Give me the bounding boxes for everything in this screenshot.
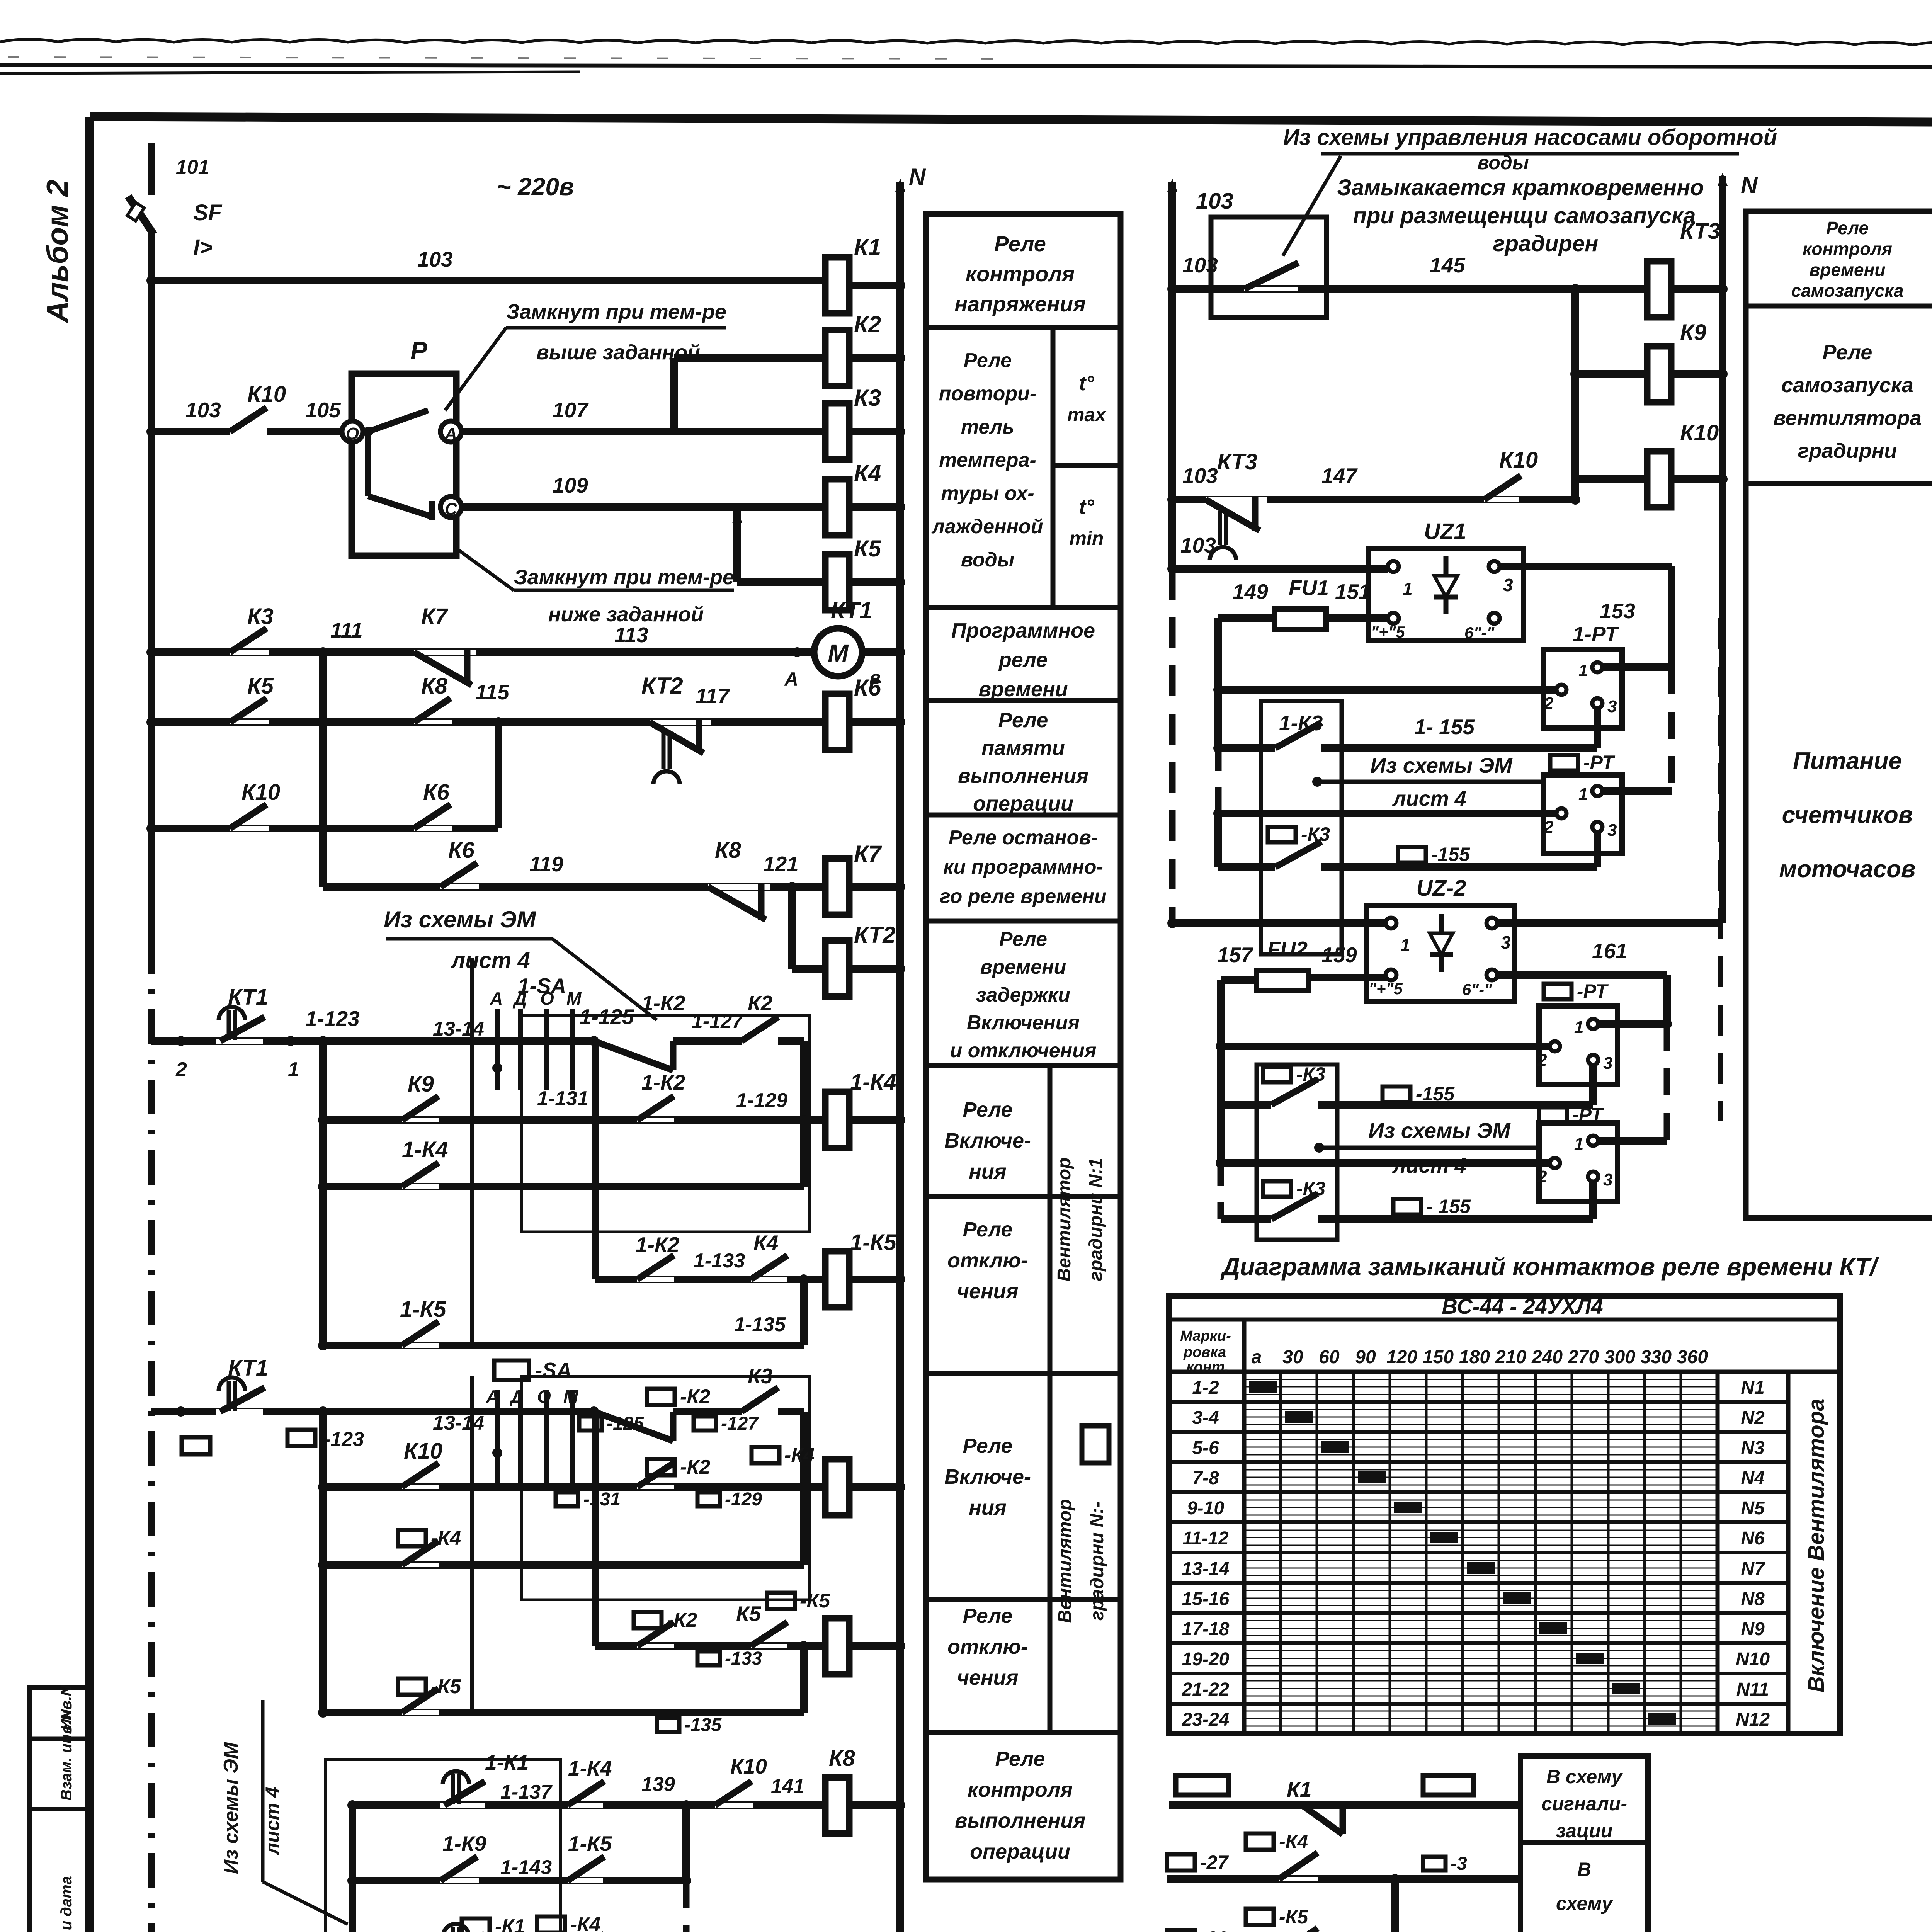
svg-text:времени: времени <box>978 678 1068 701</box>
svg-text:Включение Вентилятора: Включение Вентилятора <box>1804 1398 1829 1692</box>
contact -K3 a <box>1275 865 1321 869</box>
svg-text:-К5: -К5 <box>1279 1906 1308 1928</box>
contact K5 rung4 <box>230 720 269 724</box>
junction fan2 125 <box>589 1406 599 1417</box>
leader iz shemy bottom <box>261 1700 265 1882</box>
wire vert 1-135 up <box>800 1279 808 1345</box>
wire rung -K4 contact (fan2) <box>323 1561 804 1569</box>
wire thin riser fan1 <box>470 958 474 1345</box>
svg-text:отклю-: отклю- <box>947 1635 1028 1658</box>
svg-text:30: 30 <box>1282 1347 1303 1367</box>
diagram row 19-20 <box>1169 1672 1718 1675</box>
svg-text:О: О <box>540 988 554 1009</box>
wire -RTa pin1 <box>1603 787 1672 795</box>
diagram row 15-16 <box>1169 1611 1718 1615</box>
svg-text:147: 147 <box>1321 464 1358 488</box>
wire FU2 right <box>1308 974 1386 981</box>
contact K6 rung6 <box>440 884 479 889</box>
leader zamknut vyshe <box>506 326 726 330</box>
wire -155 b <box>1221 1101 1271 1109</box>
wire iz shemy l2a <box>1317 780 1544 784</box>
svg-text:13-14: 13-14 <box>433 1018 484 1040</box>
placeholder rect -RT a <box>1550 755 1578 770</box>
leader zamyk <box>1283 156 1341 256</box>
svg-text:115: 115 <box>475 680 510 704</box>
-RTa pin2 <box>1556 808 1566 818</box>
-RTc pin3 <box>1588 1172 1598 1182</box>
module UZ-2 box <box>1366 905 1515 1002</box>
contact K1 break brung <box>1302 1805 1343 1834</box>
diagram row 7-8 <box>1169 1490 1718 1494</box>
desc divider 9 <box>926 1597 1121 1602</box>
svg-text:21-22: 21-22 <box>1182 1679 1230 1700</box>
wire UZ2 pin6 right <box>1497 971 1667 979</box>
svg-text:60: 60 <box>1319 1347 1340 1367</box>
wire down to KT2 coil <box>788 887 796 969</box>
relay coil KT3 <box>1647 261 1671 317</box>
placeholder rect -27 <box>1167 1854 1195 1871</box>
contact 1-K1 delay <box>440 1803 485 1808</box>
svg-text:1-РТ: 1-РТ <box>1573 622 1619 646</box>
svg-text:К10: К10 <box>241 780 280 805</box>
svg-text:103: 103 <box>185 398 221 422</box>
svg-text:лист 4: лист 4 <box>450 948 530 973</box>
wire thin riser fan2 <box>470 1376 474 1713</box>
svg-text:-РТ: -РТ <box>1583 752 1616 773</box>
svg-text:О: О <box>537 1386 551 1406</box>
svg-text:N: N <box>909 164 926 190</box>
svg-text:N12: N12 <box>1736 1709 1770 1730</box>
svg-text:-К2: -К2 <box>680 1456 710 1478</box>
wire vert 1-129 <box>800 1041 808 1187</box>
placeholder rect -RT c <box>1539 1107 1567 1123</box>
svg-text:13-14: 13-14 <box>1182 1559 1230 1579</box>
UZ1 diode <box>1434 576 1458 597</box>
svg-text:О: О <box>346 424 359 443</box>
svg-text:1-К4: 1-К4 <box>402 1137 448 1162</box>
svg-text:1-К4: 1-К4 <box>568 1756 612 1780</box>
relay coil -K5 fan2 <box>825 1618 849 1674</box>
svg-text:270: 270 <box>1568 1347 1599 1367</box>
pitanie divider2 <box>1746 481 1932 486</box>
wire rung K9 (fan1) <box>323 1116 825 1124</box>
placeholder rect -K5 contact label <box>398 1679 426 1695</box>
wire vert 153 dashed <box>1668 667 1675 791</box>
svg-text:7-8: 7-8 <box>1192 1468 1219 1488</box>
junction 111 <box>318 647 328 657</box>
svg-text:К6: К6 <box>423 780 450 805</box>
wire KT3 to N2 <box>1671 285 1723 293</box>
svg-text:UZ1: UZ1 <box>1424 519 1466 544</box>
wire -155 a <box>1218 863 1275 871</box>
svg-text:воды: воды <box>961 549 1014 571</box>
wire 103 rung2 <box>151 428 230 435</box>
relay coil K8 <box>825 1777 849 1833</box>
svg-text:Из схемы ЭМ: Из схемы ЭМ <box>1368 1118 1511 1143</box>
junction fan2 135 <box>799 1641 809 1651</box>
svg-text:контроля: контроля <box>966 262 1075 286</box>
placeholder rect -K5 coil label <box>767 1593 795 1609</box>
svg-text:-РТ: -РТ <box>1577 980 1609 1002</box>
svg-text:Замкнут при тем-ре: Замкнут при тем-ре <box>506 300 726 323</box>
wire bus101 stub <box>148 143 155 195</box>
wire rung KT1-1 (fan1) <box>151 1037 594 1045</box>
wire rung5 <box>151 825 498 832</box>
wire 1-K5 to N <box>849 1276 900 1283</box>
svg-text:300: 300 <box>1604 1347 1635 1367</box>
svg-text:отклю-: отклю- <box>947 1249 1028 1272</box>
scan edge top wavy <box>0 39 1932 47</box>
svg-text:Реле: Реле <box>1823 341 1872 364</box>
svg-text:1-К5: 1-К5 <box>568 1832 612 1855</box>
diagram vs row line <box>1169 1318 1840 1322</box>
svg-text:N: N <box>1741 172 1758 198</box>
sidebar divider 1 <box>30 1737 91 1741</box>
scan edge top dashes <box>8 57 1005 59</box>
svg-text:Из схемы ЭМ: Из схемы ЭМ <box>384 906 537 932</box>
wire rung KT3 <box>1172 285 1647 293</box>
svg-text:Замыкакается кратковременно: Замыкакается кратковременно <box>1337 175 1704 200</box>
svg-text:лист 4: лист 4 <box>1392 787 1466 810</box>
svg-text:1: 1 <box>1400 935 1410 955</box>
svg-text:Реле: Реле <box>995 1747 1045 1770</box>
relay coil K9 l2 <box>1647 346 1671 402</box>
placeholder rect -K3 c <box>1263 1181 1291 1197</box>
diagram outer box <box>1169 1296 1840 1734</box>
placeholder rect -K2 fan2b <box>647 1459 675 1475</box>
svg-text:В схему: В схему <box>1546 1766 1623 1787</box>
svg-text:19-20: 19-20 <box>1182 1649 1230 1670</box>
svg-text:150: 150 <box>1423 1347 1454 1367</box>
wire K2 to N <box>849 354 900 362</box>
contact 1-K2 break fan1 <box>603 1039 672 1043</box>
svg-text:1: 1 <box>288 1058 299 1081</box>
contact K7 break <box>414 650 476 655</box>
wire brung1 <box>1169 1801 1520 1809</box>
relay coil K5 <box>825 554 849 610</box>
svg-text:напряжения: напряжения <box>954 292 1086 316</box>
junction 1-123 <box>318 1036 328 1046</box>
svg-text:15-16: 15-16 <box>1182 1589 1230 1609</box>
svg-text:111: 111 <box>330 618 363 642</box>
pitanie divider1 <box>1746 304 1932 309</box>
svg-text:90: 90 <box>1355 1347 1376 1367</box>
contact 1-K5 <box>402 1343 439 1348</box>
svg-text:ВС-44 - 24УХЛ4: ВС-44 - 24УХЛ4 <box>1442 1294 1603 1318</box>
sidebar box <box>30 1688 91 1932</box>
wire rung 1-K1 (bott) <box>352 1801 825 1809</box>
wire riser1 dashed <box>1215 748 1222 813</box>
wire rung UZ2 <box>1172 919 1386 927</box>
svg-text:3-4: 3-4 <box>1192 1408 1219 1428</box>
placeholder rect fan2 a <box>182 1437 210 1454</box>
svg-text:330: 330 <box>1641 1347 1672 1367</box>
diagram row 21-22 <box>1169 1702 1718 1706</box>
svg-text:6"-": 6"-" <box>1464 624 1495 642</box>
junction fan2 129 <box>799 1482 809 1492</box>
contact 1-K3 <box>1275 746 1321 750</box>
svg-text:Реле: Реле <box>998 709 1048 732</box>
placeholder rect -29 <box>1167 1930 1195 1932</box>
wire K1 to N <box>849 282 900 289</box>
contact 1-K2 fan1c <box>637 1277 674 1282</box>
svg-text:145: 145 <box>1430 253 1466 277</box>
terminal 2 <box>176 1036 186 1046</box>
contact -K2 fan2b <box>637 1485 674 1489</box>
-RTb pin3 <box>1588 1055 1598 1065</box>
wire KT2coil to N <box>849 965 900 973</box>
svg-text:самозапуска: самозапуска <box>1781 374 1913 397</box>
contact K8 rung4 <box>414 720 452 724</box>
contact -K2 break fan2 <box>594 1412 673 1441</box>
svg-text:119: 119 <box>529 852 563 876</box>
UZ2 pin3 <box>1486 918 1497 929</box>
junction 139-2 <box>681 1876 691 1886</box>
svg-text:SF: SF <box>193 200 223 225</box>
svg-text:градирни N:1: градирни N:1 <box>1086 1158 1106 1281</box>
wire riser2 low dashed <box>1218 1163 1224 1219</box>
svg-text:N8: N8 <box>1741 1589 1765 1609</box>
sidebar divider 2 <box>30 1807 91 1811</box>
svg-text:23-24: 23-24 <box>1182 1709 1230 1730</box>
svg-text:161: 161 <box>1592 939 1628 963</box>
desc divider 7 <box>926 1194 1121 1199</box>
UZ1 pin3 <box>1489 561 1500 572</box>
svg-text:N1: N1 <box>1741 1378 1764 1398</box>
relay coil K10 l2 <box>1647 451 1671 507</box>
contact box 1-K3 <box>1261 701 1342 954</box>
wire vert brung23 <box>1391 1879 1399 1932</box>
svg-text:103: 103 <box>1182 464 1218 488</box>
wire rung -K5 contact (fan2) <box>323 1709 804 1716</box>
counter box -RT c <box>1539 1123 1617 1201</box>
svg-text:N7: N7 <box>1741 1559 1765 1579</box>
svg-text:3: 3 <box>1603 1170 1612 1189</box>
wire UZ2 pin3 right <box>1497 919 1723 927</box>
wire 1-155 <box>1218 744 1275 752</box>
svg-text:1-2: 1-2 <box>1192 1378 1219 1398</box>
relay coil KT2 <box>825 940 849 997</box>
svg-text:КТ3: КТ3 <box>1680 219 1720 244</box>
svg-text:К8: К8 <box>829 1746 855 1771</box>
P switch upper <box>363 427 373 437</box>
svg-text:С: С <box>445 500 457 519</box>
svg-text:счетчиков: счетчиков <box>1782 802 1913 828</box>
wire rung -K2/K5 (fan2) <box>595 1642 825 1650</box>
placeholder rect -K4 brung <box>1246 1833 1274 1850</box>
wire 1-RT pin3 vert <box>1594 709 1601 748</box>
svg-text:управле-: управле- <box>1540 1927 1627 1932</box>
regulator P box <box>352 374 456 556</box>
svg-text:1-К2: 1-К2 <box>641 991 685 1015</box>
svg-text:тель: тель <box>961 416 1014 438</box>
wire K7 to N <box>849 883 900 891</box>
svg-text:К6: К6 <box>448 838 475 863</box>
svg-text:6"-": 6"-" <box>1462 980 1492 998</box>
svg-text:К6: К6 <box>854 675 881 701</box>
svg-text:13-14: 13-14 <box>433 1412 484 1434</box>
branch to K2 <box>670 358 678 432</box>
svg-text:1-133: 1-133 <box>694 1250 745 1272</box>
wire dashed aux bus2 <box>1718 618 1723 1121</box>
wire K4 to N <box>849 503 900 511</box>
svg-text:-123: -123 <box>324 1428 364 1451</box>
svg-text:3: 3 <box>1503 575 1513 595</box>
svg-text:К5: К5 <box>736 1602 762 1626</box>
svg-text:3: 3 <box>1607 697 1617 716</box>
placeholder rect -155 b <box>1383 1087 1410 1102</box>
wire rung 1-K9 (bott) <box>352 1877 686 1884</box>
diagram row 3-4 <box>1169 1430 1718 1434</box>
svg-text:3: 3 <box>1607 821 1617 840</box>
svg-text:зации: зации <box>1556 1820 1613 1842</box>
svg-text:КТ3: КТ3 <box>1217 449 1257 474</box>
svg-text:1: 1 <box>1574 1018 1583 1037</box>
svg-text:141: 141 <box>771 1775 804 1798</box>
wire K3 to N <box>849 428 900 435</box>
relay coil K6 <box>825 694 849 750</box>
svg-text:2: 2 <box>175 1058 187 1081</box>
svg-text:Альбом 2: Альбом 2 <box>40 180 74 323</box>
svg-text:К1: К1 <box>1287 1777 1311 1801</box>
junction 139 <box>681 1800 691 1810</box>
svg-text:-К4: -К4 <box>570 1913 600 1932</box>
wire vert bott <box>349 1805 356 1932</box>
wire -K5 to N <box>849 1642 900 1650</box>
wire vert fan2 125 down <box>592 1412 599 1646</box>
diagram row 23-24 <box>1169 1732 1718 1736</box>
fan1 group outline box <box>522 1015 810 1232</box>
wire -RTb pin2 <box>1221 1043 1550 1050</box>
wire vert 1-125 down <box>592 1041 599 1279</box>
wire K10 stub <box>1575 475 1647 483</box>
terminal C <box>440 497 461 517</box>
svg-text:11-12: 11-12 <box>1182 1528 1229 1549</box>
svg-text:Подп. и дата: Подп. и дата <box>58 1876 75 1932</box>
contact K3 fan2 <box>742 1409 778 1414</box>
junction brung2 <box>1390 1874 1400 1884</box>
placeholder rect -RT b <box>1544 984 1571 999</box>
bus N left ladder <box>896 182 904 1932</box>
desc divider 10 <box>926 1730 1121 1735</box>
junction 4077 r1 <box>1570 284 1580 294</box>
placeholder rect -K4 bott <box>537 1917 565 1932</box>
svg-text:2: 2 <box>1544 694 1554 713</box>
contact K9 <box>402 1118 439 1122</box>
wire riser1 low <box>1214 813 1222 867</box>
svg-text:КТ2: КТ2 <box>854 922 896 948</box>
svg-text:К4: К4 <box>854 460 881 486</box>
contact -K5 fan2 <box>402 1710 439 1715</box>
-RTa pin1 <box>1592 786 1602 796</box>
svg-text:К9: К9 <box>408 1071 434 1097</box>
-RTc pin2 <box>1550 1158 1560 1168</box>
placeholder rect -K5 brung <box>1246 1909 1274 1925</box>
svg-text:Реле: Реле <box>963 1604 1013 1628</box>
svg-text:ния: ния <box>969 1160 1006 1183</box>
svg-text:К10: К10 <box>404 1439 442 1464</box>
v shemu box <box>1520 1756 1648 1932</box>
-RTc pin1 <box>1588 1136 1598 1146</box>
contact K8 break rung6 <box>708 884 770 890</box>
placeholder rect -K3 a <box>1268 827 1296 842</box>
wire rung UZ1 <box>1172 565 1388 573</box>
box iz shemy fan2 <box>326 1760 561 1932</box>
placeholder rect -K2 fan2a <box>647 1389 675 1405</box>
svg-text:159: 159 <box>1321 943 1357 967</box>
relay coil 1-K5 <box>825 1251 849 1307</box>
svg-text:К7: К7 <box>421 604 449 629</box>
svg-text:139: 139 <box>641 1773 675 1796</box>
svg-text:103: 103 <box>1196 189 1233 214</box>
svg-text:А: А <box>784 668 798 690</box>
wire -RTc pin2 <box>1221 1159 1550 1167</box>
-RTb pin1 <box>1588 1019 1598 1029</box>
bus N2 <box>1719 176 1726 923</box>
wire vert 161 dashed <box>1664 1024 1670 1141</box>
svg-text:1: 1 <box>1574 1134 1583 1153</box>
wire 115 branch vertical <box>495 722 502 828</box>
svg-text:времени: времени <box>1810 260 1886 280</box>
terminal O <box>342 421 363 442</box>
contact K10 fan2 <box>402 1485 439 1489</box>
wire 1-RT pin1 <box>1603 663 1672 671</box>
svg-text:реле: реле <box>998 648 1048 672</box>
placeholder rect -155 c <box>1393 1199 1421 1214</box>
svg-text:Взам. инв.N: Взам. инв.N <box>58 1709 75 1801</box>
junction 121 <box>787 882 797 892</box>
svg-text:сигнали-: сигнали- <box>1541 1793 1627 1815</box>
placeholder rect -127 <box>694 1417 716 1430</box>
pitanie box <box>1746 211 1932 1218</box>
svg-text:Вентилятор: Вентилятор <box>1054 1157 1075 1281</box>
fuse FU1 <box>1274 609 1326 629</box>
switch -SA ticks fan2 <box>495 1390 500 1488</box>
relay coil K1 <box>825 257 849 313</box>
wire 103 rung1 <box>151 277 825 284</box>
svg-text:КТ1: КТ1 <box>228 1355 268 1381</box>
counter box -RT b <box>1539 1006 1617 1085</box>
svg-text:N2: N2 <box>1741 1408 1765 1428</box>
desc column box <box>926 214 1121 1879</box>
svg-text:101: 101 <box>176 156 209 179</box>
diagram N labels <box>1718 1400 1788 1404</box>
wire vert 4077 <box>1571 289 1579 500</box>
junction fan2 start <box>318 1406 328 1417</box>
svg-text:2: 2 <box>1544 818 1554 837</box>
contact K6 rung5 <box>414 826 452 831</box>
wire -K4 to N <box>849 1483 900 1491</box>
svg-text:Из схемы управления насосами: Из схемы управления насосами оборотной <box>1283 125 1777 150</box>
svg-text:N9: N9 <box>1741 1619 1765 1639</box>
desc placeholder rect fan2 <box>1082 1426 1109 1463</box>
P switch lower <box>368 496 432 517</box>
svg-text:М: М <box>563 1386 579 1406</box>
svg-text:121: 121 <box>763 852 799 876</box>
svg-text:109: 109 <box>553 473 588 497</box>
contact K3 rung3 <box>230 650 269 655</box>
svg-text:моточасов: моточасов <box>1779 856 1915 883</box>
svg-text:-129: -129 <box>725 1489 762 1510</box>
wire fan2 r1 tail <box>673 1408 742 1415</box>
placeholder rect -3 <box>1423 1857 1446 1871</box>
placeholder rect -K2 fan2c <box>634 1612 662 1628</box>
svg-text:К5: К5 <box>247 673 274 699</box>
svg-text:К7: К7 <box>854 841 882 867</box>
wire 107 <box>461 428 825 435</box>
svg-text:max: max <box>1067 404 1107 425</box>
svg-text:и отключения: и отключения <box>950 1039 1097 1062</box>
